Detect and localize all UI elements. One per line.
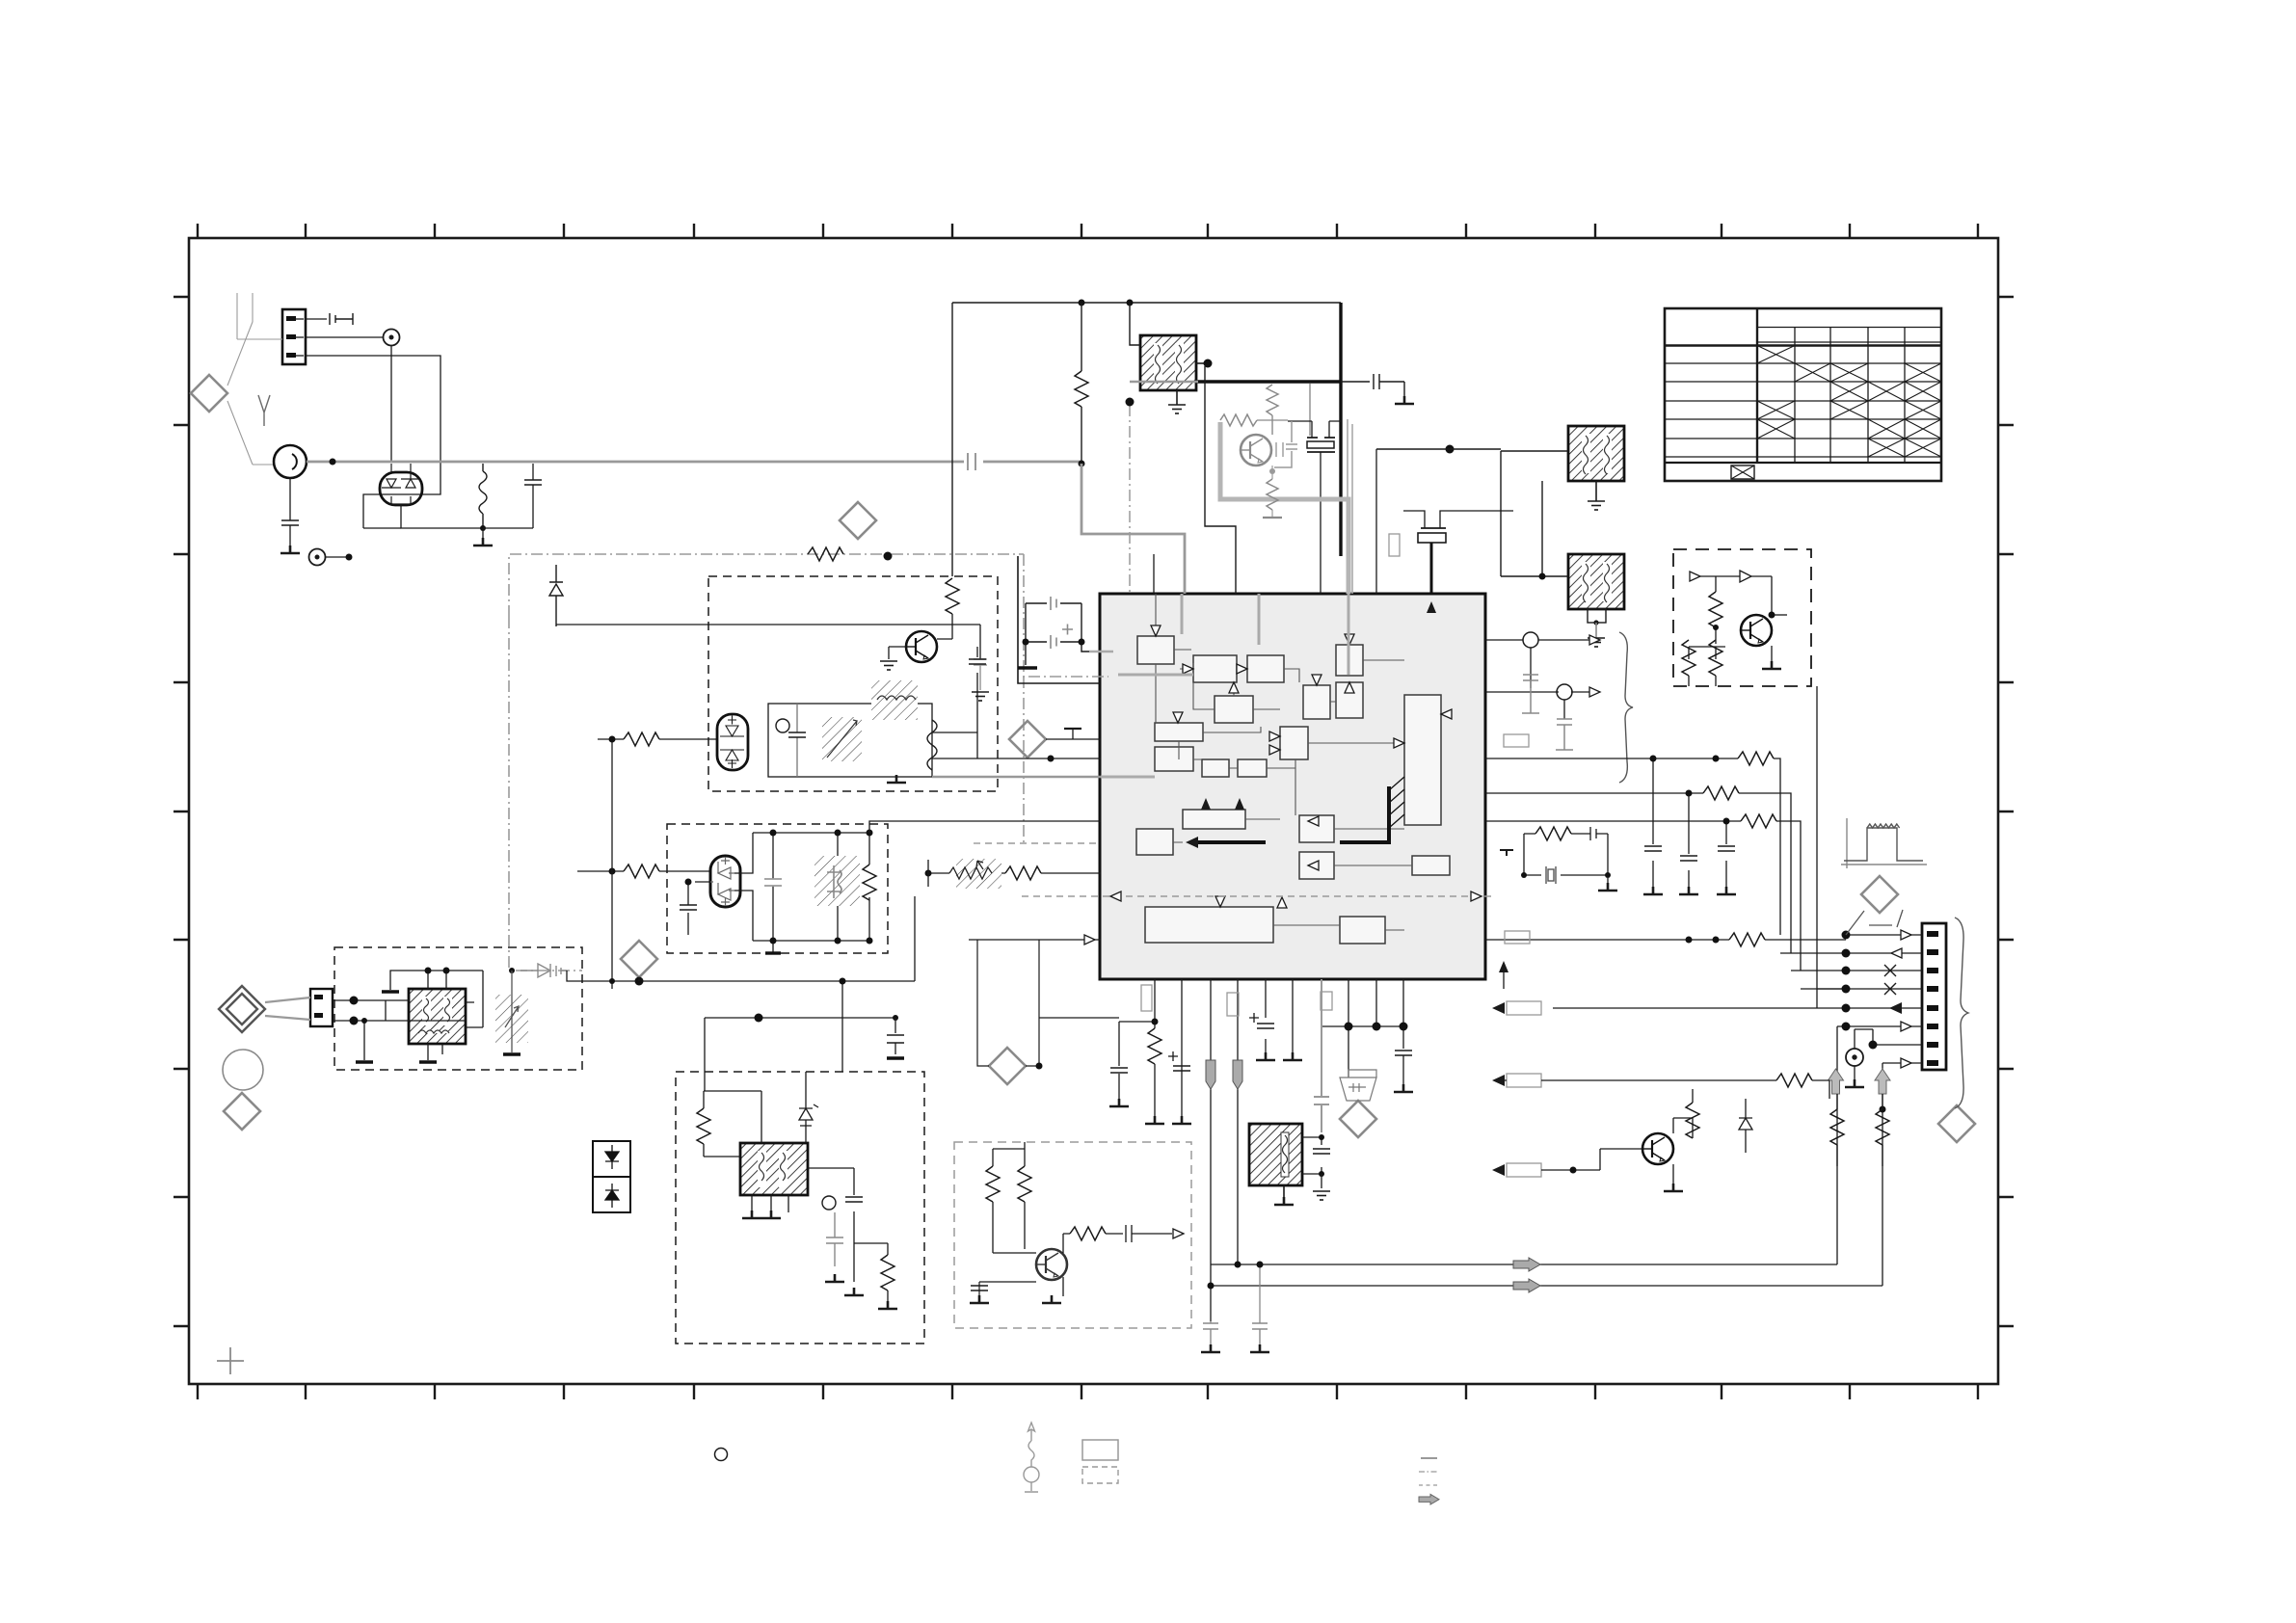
cap (Q4 out) <box>1126 1225 1172 1242</box>
border frame <box>189 238 1998 1384</box>
IC bus taps <box>1389 777 1404 828</box>
T6 bottom leads + ground <box>752 1195 788 1212</box>
resistor (box 2 damp) <box>881 1255 894 1290</box>
box A output wires <box>932 732 977 758</box>
box C contents (AFC stage right) <box>1689 576 1787 686</box>
gray up arrows (supply) <box>1829 1069 1891 1094</box>
resistor (Q1 base) <box>1220 414 1288 426</box>
transformer T6 (hatched, in dashed box centre-bottom) <box>740 1143 808 1195</box>
zener diode (box 2) <box>799 1072 818 1143</box>
Q2 base tie <box>889 647 906 659</box>
cap (tuner bias) <box>281 520 299 525</box>
gray diamond D1 (top-left antenna) <box>191 375 227 412</box>
gray dashed control line across IC <box>974 843 1494 896</box>
transistor Q2 (box A) <box>906 631 937 662</box>
dashed box 1 (lower-left input filter) <box>334 947 582 1070</box>
Q4 collector resistor chain <box>1063 1234 1070 1296</box>
trimmer cap (pin1) <box>330 313 353 325</box>
diode (box C) <box>1740 571 1751 582</box>
wire J1 pin3 loop <box>306 356 441 528</box>
ground (RF shunt) <box>482 528 484 538</box>
caps (output row filters) <box>1644 846 1662 851</box>
coil patch (box B) <box>814 856 860 906</box>
long output wire B <box>1211 1137 1882 1286</box>
legend: solid box <box>1082 1440 1118 1460</box>
IC right-side outputs: video out group <box>1485 640 1592 719</box>
main RF line (gray) <box>307 461 1081 464</box>
gray diamond D7 (bottom right) <box>1938 1105 1975 1142</box>
down arrows (gray) on pin wires <box>1206 1060 1242 1089</box>
resistor (Q2 collector) <box>946 578 959 614</box>
transistor Q4 (box D) <box>1036 1249 1067 1280</box>
double diamond (left connector) <box>219 986 265 1032</box>
IC internal gray buses <box>1101 594 1348 777</box>
transistor Q3 (box C) <box>1741 615 1772 646</box>
ground (T4) <box>1274 1197 1294 1205</box>
wire tuner to cap/ground <box>289 478 291 520</box>
gray diamond D3 (left of box B) <box>621 941 657 977</box>
IC internal function blocks <box>1136 636 1450 944</box>
gray circle (left) <box>223 1050 263 1090</box>
T4 connect caps <box>1302 1137 1322 1174</box>
gray pin wires below IC <box>1314 979 1329 1132</box>
pin head markers <box>1901 930 1911 940</box>
dashed box C (right, AFC) <box>1673 549 1811 686</box>
wire to T3 <box>1501 451 1568 576</box>
top distribution wire <box>952 302 1341 304</box>
ground (T1) <box>1168 405 1186 413</box>
alignment circle (box A) <box>776 719 789 732</box>
cap (box B left) <box>680 905 697 910</box>
wire corner net to T2 <box>1376 449 1568 451</box>
connector J3 (8-pin, right) <box>1922 923 1946 1070</box>
legend: circle <box>715 1449 728 1461</box>
ground (Q1 emitter, gray) <box>1263 517 1282 519</box>
VR patch (AGC pot, left of IC) <box>956 859 1001 889</box>
ground (box A) <box>887 775 906 783</box>
cap (box 2 a) <box>845 1197 863 1202</box>
wire TP2 to junction <box>326 556 346 558</box>
legend: dashed box <box>1082 1467 1118 1483</box>
box 1 internals: T5 top rail <box>364 971 483 1060</box>
long wire left bus to bypass cap <box>556 625 980 659</box>
electrolytic cap (pin 1226) <box>1173 1066 1190 1071</box>
junction dots (trap feed rail) <box>1345 1023 1353 1031</box>
brace (J3) <box>1955 918 1968 1108</box>
resistor (Q5 collector) <box>1686 1103 1699 1138</box>
brace (outputs) <box>1619 632 1633 783</box>
ground (tuner) <box>280 545 300 553</box>
alignment circle (box 2) <box>822 1196 836 1210</box>
gray lead through T1 bottom <box>1130 381 1198 383</box>
resistor (Q1 collector) <box>1267 385 1278 415</box>
connector J1 (3-pin, top left) <box>282 309 306 364</box>
long output wire A <box>1211 1137 1837 1264</box>
wires J2 into dashed box 1 <box>333 1000 466 1021</box>
crystal X2 (horizontal, above IC) <box>1418 528 1446 543</box>
RF line series cap <box>968 453 975 470</box>
diamond W (below pocket) <box>989 1048 1026 1084</box>
gray diamond D2 (centre-top) <box>840 502 876 539</box>
left drop of top wire <box>951 303 953 576</box>
transformer T1 (hatched, top centre) <box>1140 335 1196 405</box>
ground (left of trap) <box>1500 850 1513 856</box>
switch symbol (above J3) <box>1846 910 1903 935</box>
label box (pin, vertical) <box>1141 985 1152 1011</box>
transformer T4 (hatched, below IC) <box>1249 1124 1302 1201</box>
gray diamond D4 (left of IC) <box>1009 721 1046 758</box>
zener + transistor (lower right of IC) <box>1642 1133 1673 1164</box>
legend: line samples <box>1419 1458 1438 1485</box>
box A tank outline <box>768 704 932 777</box>
gray feed lines (double diamond to J2) <box>265 998 310 1020</box>
series cap on bus to ground <box>1341 374 1404 397</box>
variable core patch (box A) <box>822 717 862 761</box>
label arrow row 1 (into IC) <box>1492 1002 1505 1014</box>
gray drop to crystal X1 <box>1309 384 1311 436</box>
tuner input (circle with arc) <box>274 445 307 478</box>
second tie wire <box>705 1017 895 1019</box>
ceramic trap (trapezoid) <box>1340 1070 1376 1101</box>
transistor Q1 stage (gray, centre top) <box>1241 435 1271 466</box>
resistor (box 2 left) <box>697 1108 710 1144</box>
cap (box A right) <box>976 647 978 732</box>
test point 2 (circled dot) <box>309 549 326 566</box>
box 2 right network <box>808 1168 888 1282</box>
resistor (box D b) <box>1018 1166 1031 1202</box>
resistor (on dash-dot rail) <box>509 547 843 561</box>
circled output pins <box>1523 632 1538 648</box>
resistors (box C bottom pair) <box>1682 640 1695 676</box>
resistor (box D a) <box>986 1166 1000 1202</box>
resistors (output rows) <box>1738 752 1774 765</box>
resistor (box B damp) <box>863 865 876 900</box>
gray diamond D6 (right, near connector) <box>1861 876 1898 913</box>
caps+grounds (1256/1307 tails) <box>1210 1321 1212 1323</box>
frame tick marks <box>174 224 2014 1399</box>
IC right output wires to connector bundle <box>1485 686 1846 989</box>
gray line box A to IC <box>932 776 1101 778</box>
ground (bus cap) <box>1395 396 1414 404</box>
cap (Q1 coupling, gray) <box>1276 442 1283 457</box>
wire box B top to IC area <box>869 821 1101 833</box>
label box (left of crystal) <box>1389 534 1400 556</box>
IC internal wiring (light) <box>1156 594 1412 930</box>
dashed box B (below A) <box>667 824 888 953</box>
label box (right, gray) <box>1504 734 1529 747</box>
cap (box 2 b, gray) <box>826 1212 843 1266</box>
label boxes (gray, below IC) <box>1227 993 1239 1016</box>
gray dash-dot boundary (left region) <box>509 554 1108 971</box>
resistor (Q4 out) <box>1070 1227 1106 1240</box>
junction dots (box1) <box>425 968 432 974</box>
caps (output group, gray) <box>1522 675 1539 713</box>
resistor (Q1 emitter) <box>1267 466 1278 517</box>
crystal X1 (ceramic resonator) <box>1288 421 1341 452</box>
vertical tie line (left bus) <box>611 739 613 989</box>
gray RF path into IC <box>1081 464 1185 594</box>
thick bus from top wire <box>1196 303 1341 556</box>
diode+cap output (box 1, gray) <box>521 964 567 977</box>
IC bottom pin wires <box>1155 979 1403 1321</box>
J3 row wires <box>1553 935 1922 1137</box>
dashed box 2 (centre-bottom trap) <box>676 1072 924 1344</box>
transformer T2 (hatched, right) <box>1568 426 1624 501</box>
transformer T5 (hatched, in dashed box lower-left) <box>409 989 466 1044</box>
wire diamond D4 to IC <box>1046 738 1101 740</box>
plus registration mark <box>217 1347 244 1374</box>
transformer T3 (hatched, right lower) <box>1568 554 1624 638</box>
IC internal arrows <box>1151 625 1452 908</box>
resistor (box C top) <box>1709 592 1722 627</box>
wire J1 pin1 to trimmer cap <box>306 318 327 320</box>
riser to box B rail <box>914 896 916 981</box>
IC internal thick bus <box>1198 786 1389 842</box>
trap feed rail <box>1322 1025 1403 1027</box>
diode (AGC, left) <box>549 565 563 626</box>
junction dot (RF at 345) <box>330 459 336 466</box>
resistor (box A input) <box>624 732 659 746</box>
table X marks <box>1731 346 1941 480</box>
ground (T2) <box>1588 501 1605 510</box>
grounds (box D) <box>970 1295 989 1303</box>
resistor (box B input) <box>624 865 659 878</box>
resistor (top feed) <box>1075 371 1088 407</box>
RC trap (right) <box>1505 827 1608 875</box>
ground (box B) <box>765 951 781 954</box>
cap (tie wire shunt) <box>894 1018 896 1054</box>
resistor (AGC series) <box>1005 866 1041 880</box>
dual diode (box A, oval) <box>717 714 748 770</box>
crystal (RC trap) <box>1546 866 1556 884</box>
pocket black bracket <box>1018 556 1100 683</box>
filled arrow up (right bottom) <box>1499 961 1508 972</box>
box B tank wiring <box>688 833 869 952</box>
electrolytic cap (pin 1313) <box>1257 1024 1274 1028</box>
dash-dot feed to IC (gray) <box>1129 405 1131 594</box>
circled dot (J3 aux) <box>1846 1049 1863 1066</box>
gray diamond D5 (below IC) <box>1340 1101 1376 1137</box>
diamond D3 drop <box>638 977 640 981</box>
antenna feed lines (gray thin) <box>227 293 282 465</box>
wire TP down to RF line <box>390 345 392 462</box>
wire T1 primary feed <box>1130 303 1140 345</box>
IC U1 main block <box>1100 594 1485 979</box>
wire J1 pin2 to test point <box>306 336 384 338</box>
ground stub (D4 wire) <box>1066 738 1078 740</box>
grounds (IC bottom row) <box>1109 1099 1129 1106</box>
cap (pin 1198 side) <box>1119 1022 1155 1101</box>
coil patch (box A upper) <box>871 680 918 720</box>
dashed box D (gray, bottom centre) <box>954 1142 1191 1328</box>
wire diode pack to ground rail <box>401 504 483 528</box>
grounds (box 1) <box>382 990 399 993</box>
resistor (pin 1198) <box>1148 1028 1161 1064</box>
zener (right) <box>1739 1099 1752 1153</box>
cap (pin 1456) <box>1395 1051 1412 1055</box>
gray arrows (wire A/B) <box>1513 1258 1540 1292</box>
test point TP (circled dot) <box>384 330 400 346</box>
dashed box A (discriminator, centre-left) <box>708 576 998 791</box>
2-pin connector J2 (left) <box>310 989 333 1026</box>
table (top right) <box>1665 308 1941 481</box>
cap pair to IC (in dash-dot pocket) <box>1026 603 1100 665</box>
cap (box A tank) <box>796 704 798 777</box>
gray diamond D8 (left, below circle) <box>224 1093 260 1130</box>
cap (box D left) <box>971 1286 988 1290</box>
inductor (RF shunt) <box>479 464 487 528</box>
antenna V mark <box>258 395 270 426</box>
gray pair into IC top <box>1348 419 1352 594</box>
VR patch (box 1) <box>495 995 528 1043</box>
ground (T3) <box>1588 638 1605 647</box>
resistors (supply pair) <box>1830 1109 1844 1145</box>
resistor (bottom right horizontal) <box>1776 1074 1812 1087</box>
dual diode (box B, oval) <box>710 856 740 907</box>
wire zener top to trap rail <box>761 1091 762 1143</box>
dual diode pack D10 (two-stack) <box>593 1141 630 1212</box>
cap (box B, gray) <box>764 879 782 886</box>
wire crystal net down to IC <box>1375 449 1377 594</box>
label arrow row 3 <box>1492 1164 1505 1176</box>
thick gray bus (Q1 stage to IC) <box>1220 422 1348 594</box>
junction dot column <box>1842 931 1851 940</box>
T1 secondary dot <box>1196 362 1208 364</box>
waveform icon (right) <box>1841 818 1927 868</box>
dual diode pack (surge, oval) <box>380 472 422 505</box>
cap (RF shunt 2) <box>532 464 534 480</box>
gray branch cap (X1 to emitter) <box>1274 421 1297 467</box>
legend: source symbol <box>1024 1423 1039 1492</box>
coil (box A secondary) <box>927 720 937 770</box>
label box gray <box>1505 931 1530 944</box>
label arrow row 2 <box>1492 1075 1505 1086</box>
wire into IC (bottom left group) <box>969 939 1101 941</box>
junction dots (box B rails) <box>770 830 777 837</box>
